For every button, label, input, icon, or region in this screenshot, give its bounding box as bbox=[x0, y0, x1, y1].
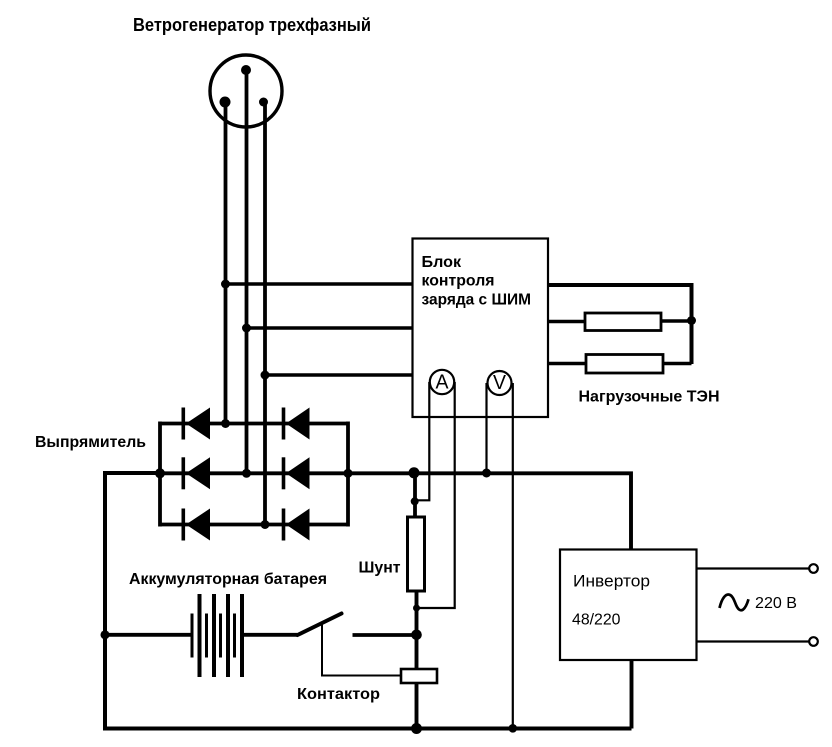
svg-text:220 В: 220 В bbox=[755, 595, 797, 612]
svg-text:Аккумуляторная батарея: Аккумуляторная батарея bbox=[129, 571, 327, 588]
battery GB1 plate 2 (long) bbox=[198, 594, 202, 677]
wire: shunt branch from positive rail bbox=[413, 473, 417, 518]
diode D2 triangle bbox=[286, 408, 310, 440]
diode D4 triangle bbox=[286, 457, 310, 489]
diode D3 (row 2 left): cathode bar bbox=[182, 457, 186, 489]
svg-text:48/220: 48/220 bbox=[572, 612, 621, 629]
junction: shunt bottom sense node bbox=[413, 605, 420, 612]
diode D2 (row 1 right): cathode bar bbox=[282, 408, 286, 440]
wire: bottom negative rail bbox=[103, 727, 632, 731]
diode D3 triangle bbox=[186, 457, 210, 489]
junction: shunt top sense node bbox=[411, 497, 419, 505]
battery GB1 plate 5 (short) bbox=[219, 614, 222, 658]
wire: phase 1 from generator down to rectifier row 1 bbox=[224, 102, 228, 424]
junction: row 2 / phase 2 bbox=[242, 469, 251, 478]
wire: controller dump output 1 to right bus bbox=[548, 285, 692, 364]
svg-text:Блок: Блок bbox=[422, 254, 462, 271]
rectifier left rail bbox=[158, 422, 162, 527]
battery GB1 plate 1 (short) bbox=[191, 614, 194, 658]
diode D1 triangle bbox=[186, 408, 210, 440]
wire: rectifier row 3 bbox=[160, 523, 348, 527]
svg-text:V: V bbox=[493, 372, 507, 394]
wire: coil to negative rail bbox=[415, 683, 419, 729]
battery GB1 plate 6 (long) bbox=[226, 594, 230, 677]
junction: row 1 / phase 1 bbox=[221, 419, 230, 428]
junction: phase 3 / controller input 3 bbox=[261, 371, 270, 380]
rectifier right rail bbox=[346, 422, 350, 527]
battery GB1 plate 7 (short) bbox=[233, 614, 236, 658]
diode D6 triangle bbox=[286, 509, 310, 541]
contactor coil K1 bbox=[401, 669, 437, 683]
diode D5 (row 3 left): cathode bar bbox=[182, 509, 186, 541]
wire: heater R1 to right bus bbox=[661, 319, 692, 323]
wire: inverter negative to bottom rail bbox=[630, 660, 634, 729]
wire: switch linkage to contactor coil bbox=[322, 624, 401, 676]
svg-text:заряда с ШИМ: заряда с ШИМ bbox=[422, 292, 532, 309]
svg-text:А: А bbox=[436, 372, 450, 394]
wire: negative rail (left side, down and along bottom handled separately) bbox=[105, 473, 160, 729]
svg-text:Шунт: Шунт bbox=[359, 560, 401, 577]
svg-text:Нагрузочные ТЭН: Нагрузочные ТЭН bbox=[579, 389, 720, 406]
wire: battery positive lead bbox=[242, 633, 297, 637]
voltmeter V (meter circle on controller) bbox=[488, 371, 512, 395]
junction: voltmeter / positive rail bbox=[482, 469, 491, 478]
wire: shunt bottom down to contactor coil bbox=[415, 591, 419, 669]
wire: positive rail from rectifier to inverter bbox=[348, 473, 631, 549]
svg-text:контроля: контроля bbox=[422, 273, 495, 290]
wire: rectifier row 1 bbox=[160, 422, 348, 426]
junction: positive rail / shunt branch bbox=[409, 467, 420, 478]
junction: left rail / battery tap bbox=[101, 630, 110, 639]
wire: voltmeter right lead down to negative rail bbox=[512, 383, 514, 729]
wire: ammeter left lead down to shunt top bbox=[416, 382, 429, 500]
battery GB1 plate 8 (long) bbox=[240, 594, 244, 677]
wire: phase 3 from generator down to rectifier row 3 bbox=[263, 102, 267, 525]
junction: right bus / R1 bbox=[687, 316, 696, 325]
heater resistor R2 (ТЭН) bbox=[586, 355, 663, 374]
junction: battery/switch node bbox=[411, 630, 422, 641]
wire: voltmeter left lead down to positive rail bbox=[485, 383, 487, 473]
wire: switch fixed contact to battery node bbox=[353, 633, 417, 637]
generator terminal node phase 1 bbox=[220, 97, 231, 108]
junction: coil / negative rail bbox=[411, 723, 422, 734]
AC sine symbol bbox=[720, 595, 749, 611]
wire: phase 2 tap to charge controller input 2 bbox=[247, 326, 414, 330]
svg-text:Контактор: Контактор bbox=[297, 686, 380, 703]
wire: battery negative lead bbox=[105, 633, 192, 637]
junction: voltmeter / negative rail bbox=[509, 724, 518, 733]
diode D5 triangle bbox=[186, 509, 210, 541]
heater resistor R1 (ТЭН) bbox=[585, 313, 661, 331]
diode D6 (row 3 right): cathode bar bbox=[282, 509, 286, 541]
inverter block (Инвертор 48/220) bbox=[560, 550, 697, 661]
wire: controller dump output 2 to heater R1 bbox=[548, 320, 585, 324]
svg-text:Ветрогенератор трехфазный: Ветрогенератор трехфазный bbox=[133, 15, 371, 35]
svg-text:Выпрямитель: Выпрямитель bbox=[35, 434, 146, 451]
diode D1 (row 1 left): cathode bar bbox=[182, 408, 186, 440]
junction: phase 1 / controller input 1 bbox=[221, 280, 230, 289]
wire: rectifier row 2 bbox=[160, 471, 348, 475]
diode D4 (row 2 right): cathode bar bbox=[282, 457, 286, 489]
wire: phase 2 from generator down to rectifier row 2 bbox=[245, 70, 249, 473]
wire: heater R2 to right bus bbox=[663, 362, 692, 366]
terminal: AC output upper bbox=[809, 564, 818, 573]
wire: phase 3 tap to charge controller input 3 bbox=[265, 373, 413, 377]
generator terminal node phase 3 bbox=[259, 98, 268, 107]
charge controller block (Блок контроля заряда с ШИМ) bbox=[413, 239, 549, 418]
generator terminal node phase 2 bbox=[241, 65, 251, 75]
junction: row 3 / phase 3 bbox=[261, 520, 270, 529]
generator G1 (three-phase wind generator) circle bbox=[210, 55, 282, 127]
wire: phase 1 tap to charge controller input 1 bbox=[226, 282, 414, 286]
wire: inverter AC output lower bbox=[697, 640, 810, 642]
svg-text:Инвертор: Инвертор bbox=[573, 572, 650, 591]
battery GB1 plate 3 (short) bbox=[205, 614, 208, 658]
wire: controller dump output 3 to heater R2 bbox=[548, 362, 586, 366]
battery GB1 plate 4 (long) bbox=[212, 594, 216, 677]
wire: inverter AC output upper bbox=[697, 567, 810, 569]
switch blade (contactor contact) bbox=[298, 614, 342, 636]
shunt resistor (Шунт) bbox=[408, 517, 425, 591]
wire: ammeter right lead down to shunt bottom bbox=[418, 382, 455, 608]
junction: phase 2 / controller input 2 bbox=[242, 324, 251, 333]
terminal: AC output lower bbox=[809, 637, 818, 646]
ammeter A (meter circle on controller) bbox=[430, 370, 454, 394]
junction: row 2 / right rail bbox=[344, 469, 353, 478]
junction: row 2 / left rail bbox=[155, 468, 165, 478]
